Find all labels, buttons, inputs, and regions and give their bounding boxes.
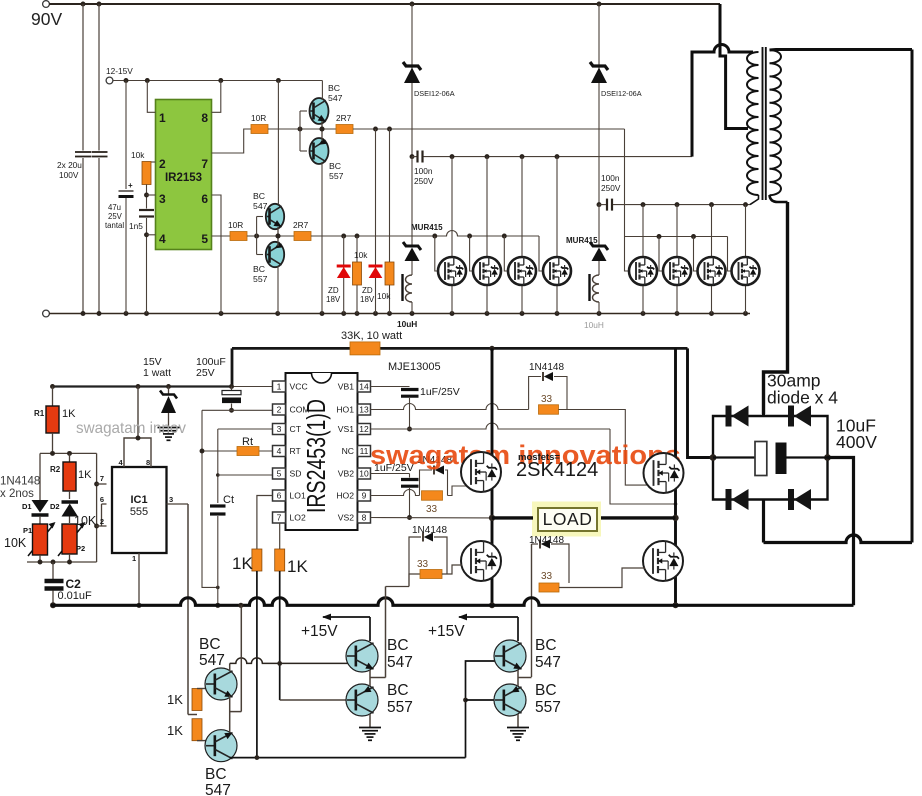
svg-text:1N4148: 1N4148: [412, 525, 447, 536]
resistor 33 lower-right gate: [539, 583, 559, 592]
wire secondary bottom to bridge: [770, 195, 788, 202]
resistor 33K 10 watt HV dropper: [232, 347, 688, 350]
transformer T1 secondary winding: [770, 50, 782, 195]
svg-text:BC: BC: [535, 637, 557, 654]
svg-text:1uF/25V: 1uF/25V: [420, 386, 460, 398]
wire buffer drive bottom run: [230, 757, 466, 759]
svg-text:tantal: tantal: [105, 221, 124, 230]
svg-text:100n: 100n: [414, 166, 433, 176]
diode bridge top-right: [788, 406, 794, 427]
wire drain rail to transformer primary top: [692, 45, 753, 157]
svg-text:D1: D1: [22, 502, 32, 511]
svg-text:557: 557: [387, 699, 413, 716]
svg-text:4: 4: [159, 232, 166, 246]
svg-text:Ct: Ct: [223, 494, 234, 506]
transistor Q14 BC557 right buffer: [494, 684, 526, 716]
svg-text:547: 547: [199, 652, 225, 669]
svg-text:25V: 25V: [108, 212, 123, 221]
svg-text:MUR415: MUR415: [566, 236, 598, 245]
svg-text:10R: 10R: [251, 113, 266, 123]
diode ZD1 zener 18V: [343, 236, 345, 314]
svg-text:1K: 1K: [78, 469, 92, 481]
svg-text:555: 555: [130, 506, 148, 518]
wire HV bus right H-bridge leg: [674, 348, 677, 605]
svg-text:2: 2: [277, 405, 282, 415]
svg-text:100V: 100V: [59, 170, 79, 180]
wire LO2 to middle buffer bases: [280, 699, 347, 701]
resistor Rt: [202, 450, 273, 452]
wire HV bus to output bridge left: [688, 348, 714, 457]
svg-text:10k: 10k: [131, 150, 145, 160]
svg-text:1K: 1K: [167, 692, 183, 707]
svg-text:1: 1: [159, 111, 166, 125]
resistor 10R lower driver: [230, 232, 247, 241]
svg-text:8: 8: [201, 111, 208, 125]
transistor Q13 BC547 right buffer: [494, 640, 526, 672]
svg-text:R1: R1: [34, 409, 45, 418]
wire lower driver base node: [247, 235, 294, 237]
svg-text:HO2: HO2: [336, 491, 354, 501]
IC U2 IRS2453(1)D full-bridge driver: [286, 373, 358, 530]
svg-text:LOAD: LOAD: [543, 509, 593, 529]
svg-text:18V: 18V: [360, 295, 375, 304]
svg-text:1N4148: 1N4148: [0, 476, 40, 488]
svg-text:10uH: 10uH: [397, 319, 417, 329]
svg-text:BC: BC: [253, 264, 265, 274]
svg-text:250V: 250V: [414, 176, 434, 186]
capacitor 1uF/25V upper bootstrap: [401, 388, 419, 391]
wire +15V feed right buffer: [517, 617, 519, 641]
diode 1N4148 HO1 gate: [529, 377, 541, 410]
diode D6 MUR415 left: [411, 157, 413, 246]
IC IC1 555 timer: [112, 467, 167, 553]
wire 555 pin2/pin7 feed: [96, 453, 98, 562]
svg-text:1n5: 1n5: [129, 221, 143, 231]
svg-text:1K: 1K: [62, 408, 76, 420]
ground middle buffer: [369, 714, 371, 727]
svg-text:BC: BC: [329, 161, 341, 171]
svg-text:NC: NC: [342, 446, 354, 456]
wire pin4 to 0V: [146, 218, 148, 314]
svg-text:swagatam innov: swagatam innov: [76, 420, 186, 437]
mosfet M8 right bank: [745, 205, 747, 257]
svg-text:1 watt: 1 watt: [143, 367, 171, 379]
ground right buffer: [517, 714, 519, 727]
svg-text:547: 547: [253, 201, 268, 211]
svg-text:1: 1: [277, 382, 282, 392]
resistor R2 1K: [69, 453, 71, 462]
diode D1 1N4148: [39, 453, 41, 500]
svg-text:12: 12: [359, 424, 369, 434]
svg-text:BC: BC: [328, 83, 340, 93]
wire 555 pins 4-8 to 15V: [124, 438, 151, 467]
resistor 10k gate bleed 2: [389, 129, 391, 314]
svg-text:25V: 25V: [196, 367, 215, 379]
svg-text:3: 3: [169, 495, 173, 504]
capacitor 100n 250V right: [597, 202, 602, 207]
wire HO1 line: [371, 404, 529, 410]
svg-text:6: 6: [201, 192, 208, 206]
wire lower gate-drive line to left MOSFET bank: [311, 231, 539, 237]
svg-text:11: 11: [360, 446, 369, 456]
svg-text:5: 5: [201, 232, 208, 246]
diode D5 DSEI12-06A left: [411, 4, 413, 157]
svg-text:557: 557: [253, 274, 268, 284]
svg-text:557: 557: [535, 699, 561, 716]
wire VS2 line: [371, 517, 493, 519]
svg-text:CT: CT: [290, 424, 302, 434]
diode 1N4148 lower-left gate: [386, 586, 410, 588]
mosfet M7 right bank: [711, 205, 713, 257]
wire +15V feed middle buffer: [369, 617, 371, 641]
svg-text:14: 14: [359, 382, 369, 392]
mosfet M5 right bank: [642, 205, 644, 257]
wire COM line: [202, 409, 273, 411]
wire LO1 via 1K: [257, 496, 273, 550]
svg-text:250V: 250V: [601, 183, 621, 193]
wire timing node row: [40, 452, 97, 454]
resistor 2R7 upper driver: [336, 125, 353, 134]
wire IR2153 pin5 output: [212, 235, 231, 237]
svg-text:1: 1: [132, 554, 136, 563]
transistor Q2 BC557 upper: [310, 138, 329, 164]
mosfet M6 right bank: [676, 205, 678, 257]
wire bridge DC minus to ground rail: [828, 458, 854, 606]
svg-text:0.01uF: 0.01uF: [58, 590, 93, 602]
svg-text:2R7: 2R7: [336, 113, 352, 123]
wire IR2153 pin1 to 12-15V: [147, 81, 155, 113]
svg-text:LO2: LO2: [290, 513, 306, 523]
svg-text:18V: 18V: [326, 295, 341, 304]
transistor Q9 BC547 bottom-left upper: [197, 688, 206, 690]
resistor 10R upper driver: [251, 125, 268, 134]
transformer T1 primary winding: [747, 52, 759, 195]
wire VB2 bootstrap: [371, 473, 410, 475]
diode bridge top-left: [726, 406, 732, 427]
wire lower pair collector/emitter: [277, 81, 279, 205]
resistor 10k at IR2153 pin2: [147, 161, 156, 163]
svg-text:400V: 400V: [836, 432, 877, 452]
resistor 1K buffer lower: [192, 719, 202, 741]
mosfet M4 left bank: [556, 157, 558, 257]
wire LO2 via 1K: [279, 523, 281, 549]
svg-text:7: 7: [277, 513, 282, 523]
svg-text:C2: C2: [66, 577, 82, 591]
wire 90V feed to transformer tap: [720, 4, 748, 129]
wire bottom timing row: [27, 561, 97, 563]
svg-text:MUR415: MUR415: [411, 223, 443, 232]
wire pin6 to 0V: [212, 195, 222, 314]
wire 555 pin3 output: [167, 503, 189, 505]
capacitor 47u 25V tantal: [125, 81, 127, 190]
svg-text:Rt: Rt: [242, 436, 253, 448]
svg-text:10: 10: [359, 469, 369, 479]
svg-text:557: 557: [329, 171, 344, 181]
transistor Q10 BC547 bottom-left lower: [197, 740, 206, 742]
resistor 2R7 lower driver: [294, 232, 311, 241]
svg-text:P1: P1: [23, 526, 32, 535]
svg-text:SD: SD: [290, 469, 302, 479]
svg-text:10R: 10R: [228, 220, 243, 230]
wire HO1 to upper-right H-bridge MOSFET gate: [559, 410, 649, 486]
capacitor 2x20u/100V bus caps: [82, 4, 84, 151]
svg-text:547: 547: [328, 93, 343, 103]
wire right bank drain rail: [613, 204, 750, 206]
resistor 1K on LO1: [252, 549, 262, 571]
svg-text:33: 33: [417, 559, 429, 570]
capacitor 1n5: [139, 209, 154, 211]
wire pin3 node: [146, 185, 148, 209]
svg-text:DSEI12-06A: DSEI12-06A: [414, 89, 455, 98]
mosfet M3 left bank: [521, 157, 523, 257]
svg-text:33: 33: [541, 571, 553, 582]
wire VB1 bootstrap: [371, 386, 410, 388]
svg-text:6: 6: [100, 495, 104, 504]
svg-text:diode x 4: diode x 4: [767, 388, 838, 408]
diode zener 15V 1 watt: [168, 387, 170, 395]
potentiometer P1 10K: [28, 524, 54, 556]
transistor Q3 BC547 lower: [257, 216, 263, 218]
wire 15V supply rail: [53, 385, 233, 387]
svg-text:BC: BC: [205, 766, 227, 783]
svg-text:+15V: +15V: [301, 623, 338, 640]
svg-text:2: 2: [159, 157, 166, 171]
wire 555 pin1 to ground rail: [138, 553, 140, 605]
resistor 33 lower-left gate: [409, 574, 420, 587]
svg-text:7: 7: [100, 474, 104, 483]
svg-text:2: 2: [100, 517, 104, 526]
svg-text:HO1: HO1: [336, 405, 354, 415]
svg-text:VS2: VS2: [338, 513, 354, 523]
svg-text:VB1: VB1: [338, 382, 354, 392]
wire 0V bottom rail of converter: [43, 310, 50, 317]
wire left bank drain rail: [424, 156, 693, 158]
svg-text:IRS2453(1)D: IRS2453(1)D: [301, 399, 331, 513]
svg-text:10k: 10k: [377, 291, 391, 301]
wire right buffer emitters to gate network: [517, 670, 519, 686]
diode D2 1N4148: [62, 500, 79, 503]
svg-text:33: 33: [541, 394, 553, 405]
inductor 10uH right: [598, 261, 600, 275]
wire HO2 to upper-left H-bridge MOSFET gate: [448, 486, 468, 496]
capacitor 10uF 400V: [710, 454, 717, 461]
capacitor 1uF/25V lower bootstrap: [401, 478, 419, 481]
resistor 33 HO2 gate: [422, 491, 443, 501]
transistor Q4 BC557 lower: [266, 242, 284, 267]
svg-text:9: 9: [362, 491, 367, 501]
wire HV bus left H-bridge leg: [491, 348, 494, 605]
svg-text:IR2153: IR2153: [165, 172, 202, 184]
wire IR2153 pin7 output: [212, 129, 252, 153]
svg-text:10uH: 10uH: [584, 320, 604, 330]
node 12-15V supply terminal: [106, 77, 113, 84]
svg-text:3: 3: [159, 192, 166, 206]
svg-text:1K: 1K: [287, 557, 308, 576]
svg-text:3: 3: [277, 424, 282, 434]
diode ZD2 zener 18V: [375, 129, 377, 314]
potentiometer P2 10K: [58, 524, 84, 556]
mosfet M1 left bank: [451, 157, 453, 257]
wire upper pair collector/emitter: [321, 81, 323, 101]
svg-text:547: 547: [387, 654, 413, 671]
svg-text:BC: BC: [199, 636, 221, 653]
diode D7 DSEI12-06A right: [598, 4, 600, 205]
wire main ground rail of inverter: [51, 598, 854, 605]
output bridge 30amp diode x 4: [713, 416, 828, 500]
svg-text:2x 20u: 2x 20u: [57, 160, 82, 170]
diode bridge bottom-left: [726, 489, 732, 510]
svg-text:ZD: ZD: [328, 286, 339, 295]
resistor 1K on LO2: [275, 549, 285, 571]
wire middle buffer emitters to gate network: [369, 670, 371, 686]
mosfet Q8 2SK4124 lower-right: [643, 541, 683, 581]
transistor Q11 BC547 middle buffer: [346, 640, 378, 672]
svg-text:1K: 1K: [167, 723, 183, 738]
svg-text:547: 547: [205, 782, 231, 796]
svg-text:5: 5: [277, 469, 282, 479]
wire 12-15V rail: [113, 80, 322, 82]
wire bottom-left pair collectors and emitters: [229, 663, 231, 671]
resistor R1 1K: [50, 384, 55, 389]
wire upper driver base node: [268, 128, 336, 130]
svg-text:+15V: +15V: [428, 623, 465, 640]
svg-text:33: 33: [426, 504, 438, 515]
component LOAD box: [532, 502, 601, 537]
wire to lower-left H-bridge MOSFET gate: [442, 565, 462, 574]
wire HO2 line: [371, 490, 420, 496]
diode 1N4148 HO2 gate: [420, 470, 433, 496]
capacitor 100n 250V left: [410, 154, 415, 159]
svg-text:1K: 1K: [232, 554, 253, 573]
ground below zener: [158, 427, 180, 429]
wire 555 pin6 link: [102, 503, 107, 505]
svg-text:90V: 90V: [31, 9, 62, 29]
capacitor C2 0.01uF: [52, 562, 54, 579]
svg-text:P2: P2: [76, 544, 85, 553]
transformer T1 core: [762, 47, 764, 200]
mosfet Q7 2SK4124 lower-left: [461, 541, 501, 581]
resistor 1K buffer upper: [192, 689, 202, 711]
svg-text:547: 547: [535, 654, 561, 671]
inductor 10uH left: [411, 261, 413, 275]
svg-text:8: 8: [146, 458, 150, 467]
node 90V input terminal: [43, 1, 50, 8]
svg-text:8: 8: [362, 513, 367, 523]
mosfet M2 left bank: [486, 157, 488, 257]
wire H-bridge output row: [492, 516, 533, 519]
svg-text:D2: D2: [50, 502, 60, 511]
IC U1 IR2153 oscillator: [156, 100, 212, 250]
svg-text:RT: RT: [290, 446, 302, 456]
svg-text:1N4148: 1N4148: [529, 535, 564, 546]
wire bridge AC top feed: [762, 410, 765, 416]
svg-text:MJE13005: MJE13005: [388, 361, 441, 373]
svg-text:47u: 47u: [108, 203, 121, 212]
wire right bank gate rail: [625, 236, 728, 238]
svg-text:BC: BC: [535, 682, 557, 699]
svg-text:ZD: ZD: [362, 286, 373, 295]
transistor Q12 BC557 middle buffer: [346, 684, 378, 716]
svg-text:10K: 10K: [4, 536, 27, 550]
svg-text:VS1: VS1: [338, 424, 354, 434]
svg-text:1N4148: 1N4148: [529, 362, 564, 373]
svg-text:12-15V: 12-15V: [106, 66, 133, 76]
wire VS1 line: [371, 423, 611, 429]
diode 1N4148 lower-right gate: [531, 544, 533, 677]
mosfet Q6 2SK4124 upper-right: [644, 453, 684, 493]
wire to lower-right H-bridge MOSFET gate: [559, 568, 645, 588]
svg-text:VB2: VB2: [338, 469, 354, 479]
svg-text:10k: 10k: [354, 250, 368, 260]
wire SD line: [218, 474, 273, 476]
svg-text:100n: 100n: [601, 173, 620, 183]
wire 555 output to base divider: [188, 714, 197, 716]
svg-text:VCC: VCC: [290, 382, 308, 392]
svg-text:BC: BC: [387, 637, 409, 654]
svg-text:6: 6: [277, 491, 282, 501]
svg-text:4: 4: [119, 458, 124, 467]
svg-text:BC: BC: [253, 191, 265, 201]
transistor Q1 BC547 upper: [300, 110, 307, 112]
svg-text:4: 4: [277, 446, 282, 456]
svg-text:BC: BC: [387, 682, 409, 699]
wire CT line: [218, 428, 273, 430]
svg-text:+: +: [128, 181, 133, 190]
diode bridge bottom-right: [788, 489, 794, 510]
svg-text:IC1: IC1: [130, 494, 147, 506]
svg-text:x 2nos: x 2nos: [0, 488, 34, 500]
resistor 33 HO1 gate: [539, 405, 559, 415]
svg-text:7: 7: [201, 157, 208, 171]
svg-text:2SK4124: 2SK4124: [516, 459, 598, 481]
svg-text:33K, 10 watt: 33K, 10 watt: [341, 330, 402, 342]
wire 90V top rail: [49, 3, 720, 5]
svg-text:2R7: 2R7: [293, 220, 309, 230]
diode D8 MUR415 right: [598, 205, 600, 246]
svg-text:13: 13: [359, 405, 369, 415]
resistor 10k gate bleed 1: [356, 236, 358, 314]
wire bridge bottom return to secondary: [762, 500, 765, 543]
mosfet Q5 2SK4124 upper-left: [461, 452, 501, 492]
svg-text:R2: R2: [50, 465, 61, 474]
svg-text:10K: 10K: [74, 514, 97, 528]
svg-text:DSEI12-06A: DSEI12-06A: [601, 89, 642, 98]
wire upper gate-drive line to right MOSFET bank: [353, 128, 625, 130]
capacitor Ct: [210, 504, 226, 507]
wire secondary top to output rectifier: [770, 48, 913, 52]
wire IR2153 pin8 to 12-15V: [212, 81, 221, 113]
